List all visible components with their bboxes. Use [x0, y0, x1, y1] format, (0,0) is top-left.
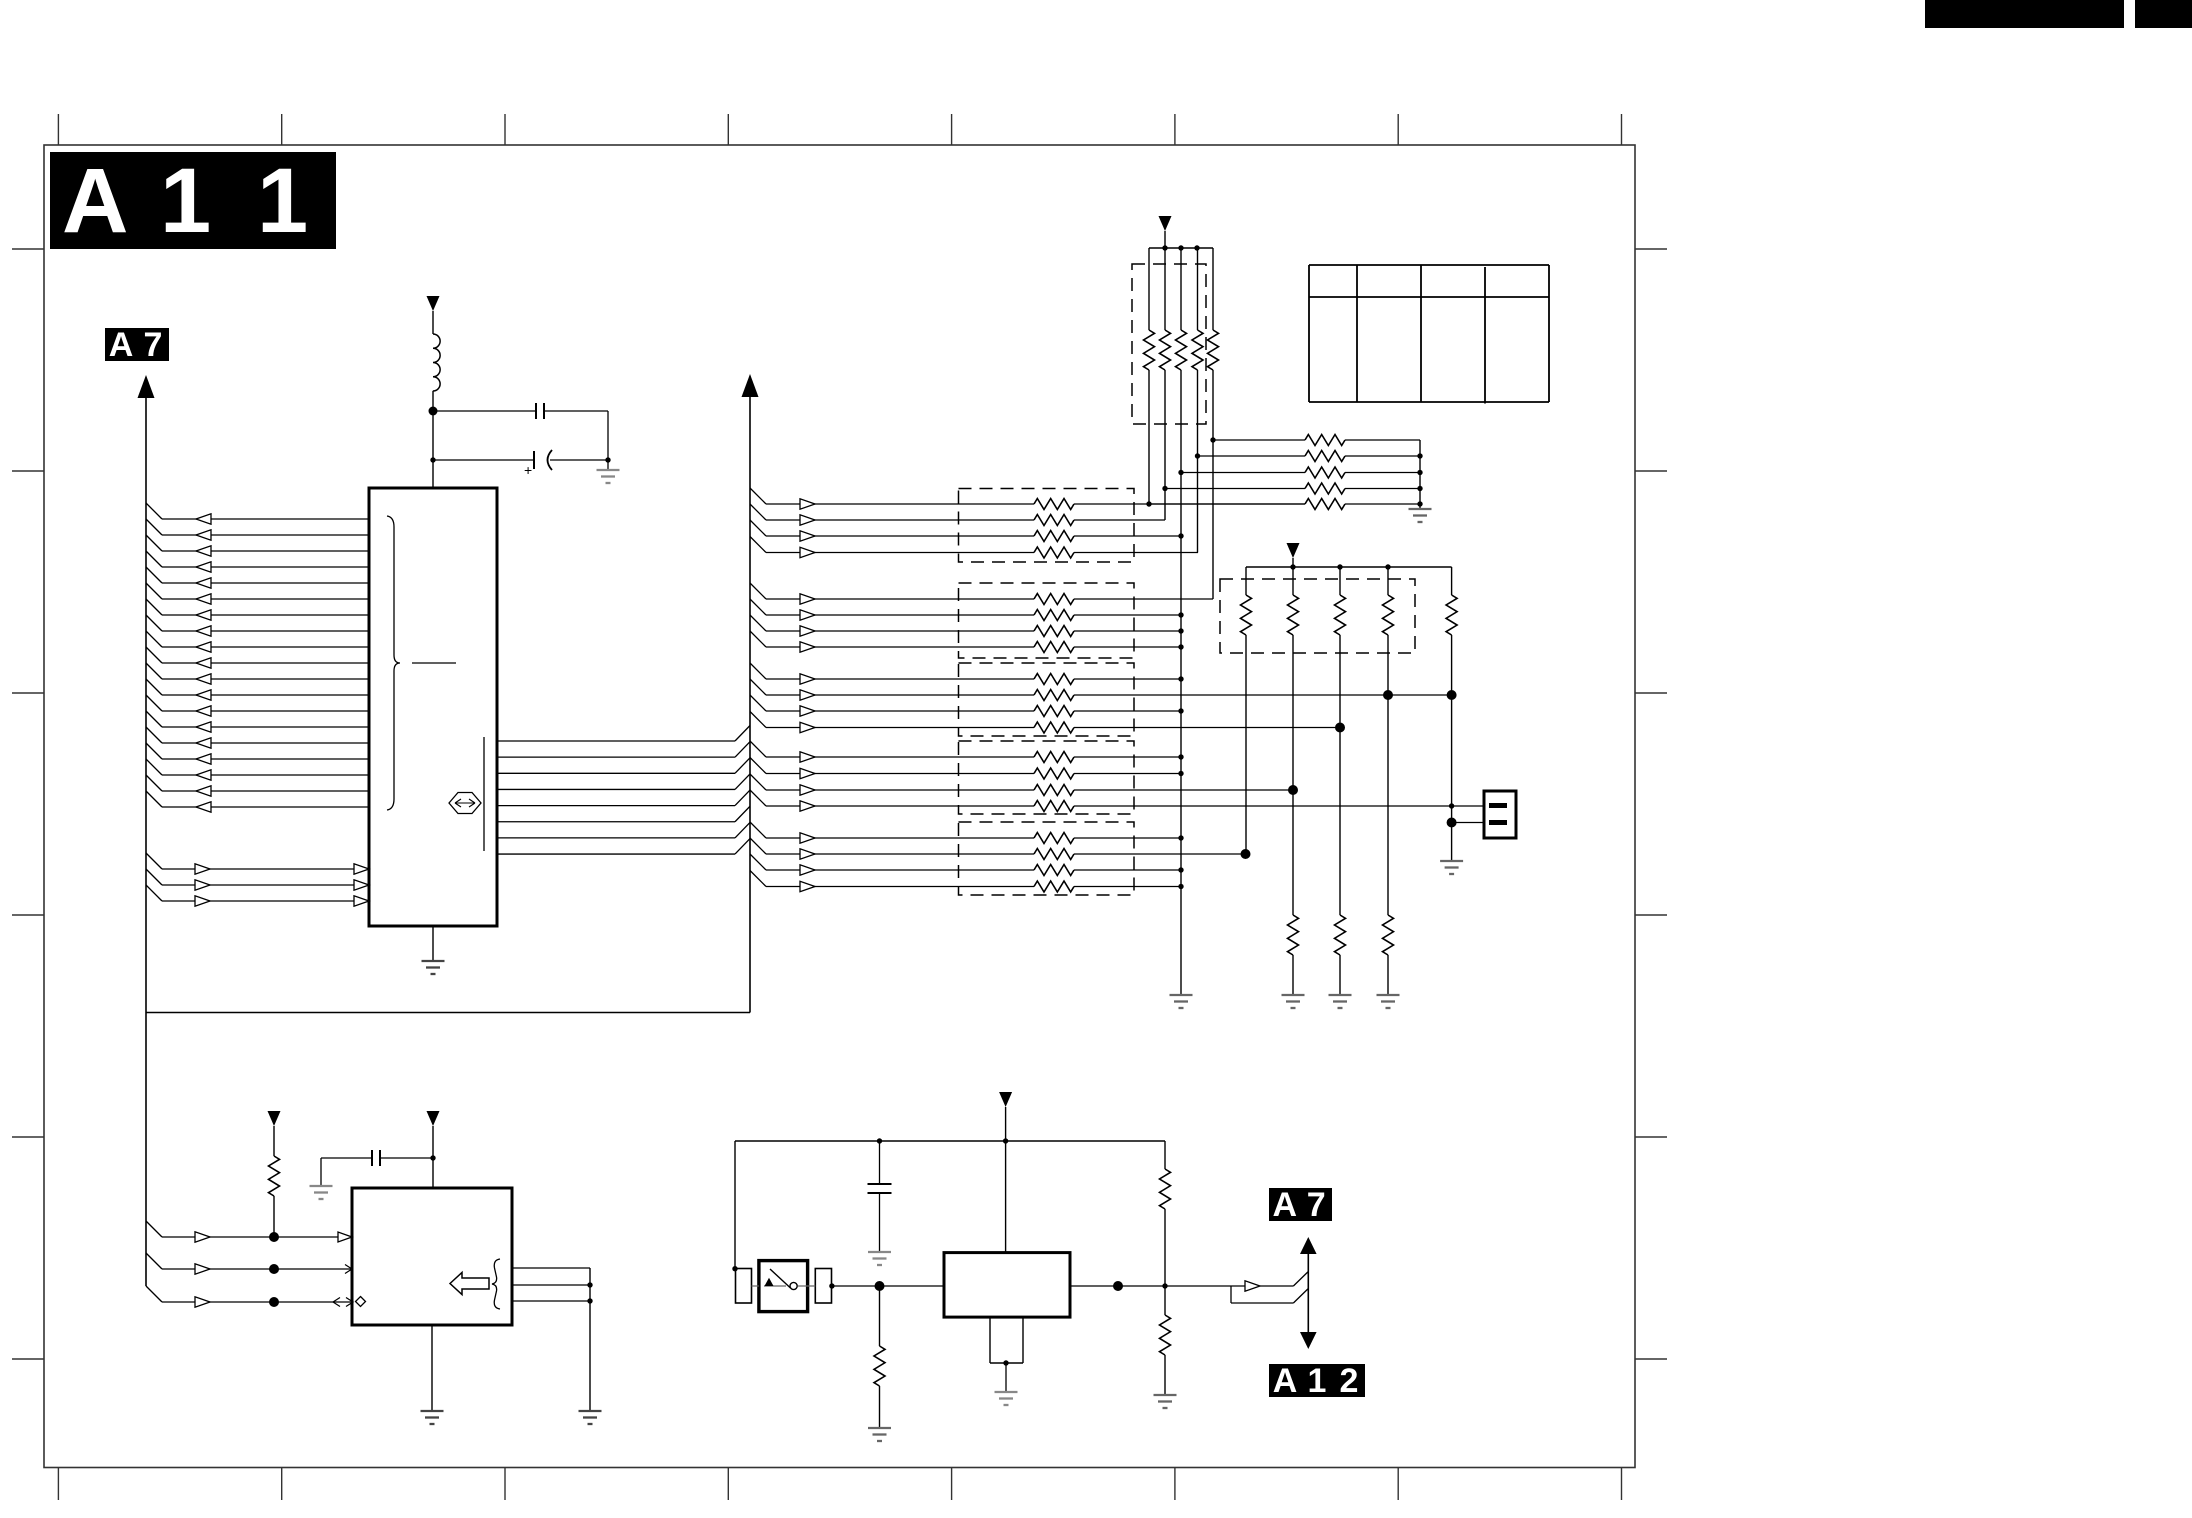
svg-text:A: A: [62, 150, 128, 252]
svg-text:7: 7: [144, 326, 163, 364]
svg-text:7: 7: [1307, 1186, 1326, 1224]
svg-text:2: 2: [1340, 1362, 1359, 1400]
svg-text:1: 1: [1308, 1362, 1327, 1400]
svg-text:A: A: [109, 326, 134, 364]
svg-text:1: 1: [160, 150, 211, 252]
svg-text:+: +: [524, 462, 532, 478]
svg-text:1: 1: [257, 150, 308, 252]
svg-text:A: A: [1272, 1186, 1297, 1224]
svg-text:A: A: [1273, 1362, 1298, 1400]
